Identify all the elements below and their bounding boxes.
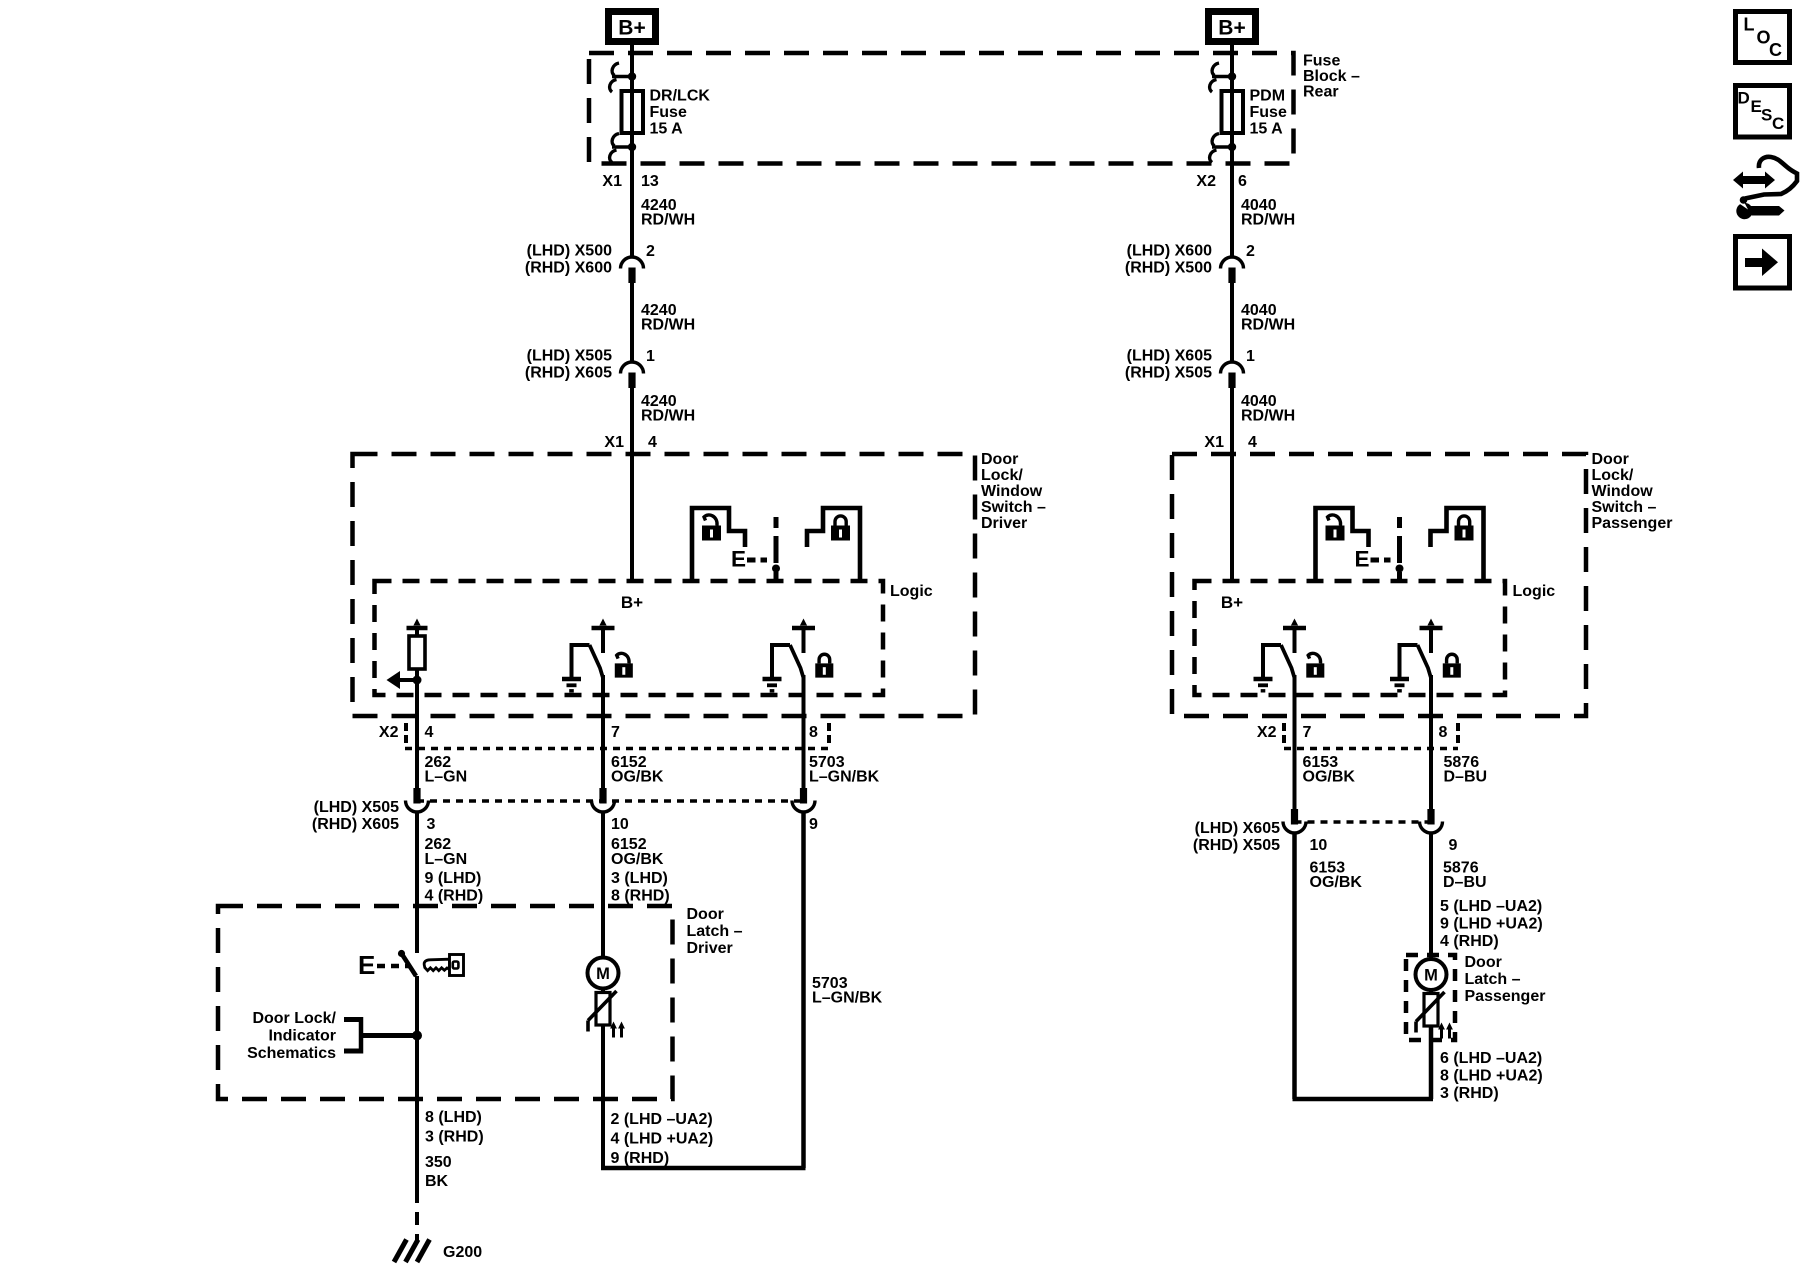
label Door Lock/Window Switch - Passenger — [1592, 451, 1673, 532]
key icon — [424, 955, 463, 976]
label 2(LHD-UA2) 4(LHD+UA2) 9(RHD) — [611, 1111, 714, 1167]
wire pin 7 (driver) — [601, 675, 605, 788]
svg-text:Latch –: Latch – — [687, 923, 743, 940]
svg-text:Driver: Driver — [687, 940, 733, 957]
svg-text:(RHD) X600: (RHD) X600 — [525, 260, 612, 277]
label connector (LHD) X600 (RHD) X500 — [1125, 243, 1212, 277]
dotted connector interface (passenger lower) — [1295, 820, 1432, 824]
wire 5876 to latch motor — [1429, 833, 1433, 959]
connector row X2 labels (passenger) — [1257, 723, 1458, 743]
DESC navigation box — [1736, 86, 1790, 138]
svg-text:4: 4 — [1248, 434, 1257, 451]
svg-text:(LHD) X605: (LHD) X605 — [1127, 348, 1212, 365]
wire 4040 RD/WH fuse to X600 — [1230, 133, 1234, 257]
pin 2 label (passenger) — [1246, 243, 1255, 260]
wire 6153 (passenger) — [1292, 833, 1297, 1099]
wire into passenger switch — [1230, 454, 1234, 581]
svg-text:9 (LHD +UA2): 9 (LHD +UA2) — [1440, 916, 1543, 933]
svg-text:RD/WH: RD/WH — [1241, 408, 1295, 425]
svg-text:L: L — [1744, 15, 1755, 35]
connector X505 pin 10 (driver) — [592, 788, 615, 812]
label connector (LHD) X500 (RHD) X600 — [525, 243, 612, 277]
PTC thermistor (passenger latch) — [1416, 990, 1453, 1039]
svg-text:X2: X2 — [379, 724, 399, 741]
svg-text:M: M — [1424, 967, 1438, 985]
svg-text:9: 9 — [809, 816, 818, 833]
lock/unlock indicator brackets with padlocks (passenger) — [1316, 508, 1484, 583]
label Door Latch - Passenger — [1465, 954, 1546, 1005]
svg-text:Logic: Logic — [1513, 583, 1556, 600]
svg-text:1: 1 — [646, 348, 655, 365]
pin label X1 4 (passenger switch input) — [1204, 434, 1257, 451]
svg-text:Schematics: Schematics — [247, 1045, 336, 1062]
svg-text:4 (RHD): 4 (RHD) — [425, 888, 484, 905]
wire 350 BK dashed to ground — [415, 1190, 419, 1242]
connector X2 dotted interface (driver) — [405, 747, 830, 751]
svg-text:Lock/: Lock/ — [1592, 467, 1634, 484]
passenger switch Logic dashed box — [1195, 581, 1506, 695]
lock switch (passenger, pin 8) — [1390, 619, 1461, 691]
svg-text:Window: Window — [981, 483, 1043, 500]
wire 4040 RD/WH X600 to X605 — [1230, 283, 1234, 362]
checking/repair wrench icon — [1733, 157, 1797, 219]
svg-text:9 (RHD): 9 (RHD) — [611, 1150, 670, 1167]
svg-text:RD/WH: RD/WH — [641, 408, 695, 425]
svg-text:OG/BK: OG/BK — [611, 851, 664, 868]
label Door Latch - Driver — [687, 906, 743, 957]
label 5876 D-BU lower — [1443, 860, 1487, 892]
door lock/indicator schematics reference bracket — [247, 1010, 422, 1062]
driver switch Logic dashed box — [375, 581, 884, 695]
label 6(LHD-UA2) 8(LHD+UA2) 3(RHD) — [1440, 1050, 1543, 1102]
label 5876 D-BU — [1444, 754, 1488, 786]
label 5703 L-GN/BK — [809, 754, 880, 786]
svg-text:X1: X1 — [1204, 434, 1224, 451]
svg-text:3: 3 — [427, 816, 436, 833]
svg-text:Door: Door — [981, 451, 1018, 468]
connector X500 pin 2 — [621, 257, 644, 283]
label connector (LHD) X605 (RHD) X505 — [1125, 348, 1212, 382]
svg-text:L–GN/BK: L–GN/BK — [812, 990, 883, 1007]
wire 4240 RD/WH X505 to switch — [630, 388, 634, 454]
svg-text:X1: X1 — [604, 434, 624, 451]
PTC thermistor (driver latch) — [588, 989, 625, 1038]
wire pin 7 (passenger) — [1293, 675, 1297, 809]
connector X605 pin 1 — [1221, 362, 1244, 388]
svg-text:3 (LHD): 3 (LHD) — [611, 870, 668, 887]
svg-text:15 A: 15 A — [1250, 121, 1284, 138]
connector X505 pin 1 — [621, 362, 644, 388]
svg-text:C: C — [1772, 114, 1784, 133]
svg-text:Switch –: Switch – — [1592, 499, 1657, 516]
svg-text:OG/BK: OG/BK — [1310, 874, 1363, 891]
svg-text:(RHD) X505: (RHD) X505 — [1125, 365, 1212, 382]
svg-text:(RHD) X605: (RHD) X605 — [312, 816, 399, 833]
wire B+ to DR/LCK fuse — [630, 45, 634, 91]
wire B+ to PDM fuse — [1230, 45, 1234, 91]
svg-text:Door: Door — [687, 906, 724, 923]
svg-text:7: 7 — [611, 724, 620, 741]
svg-text:(LHD) X605: (LHD) X605 — [1195, 820, 1280, 837]
wire 4040 RD/WH X605 to switch — [1230, 388, 1234, 454]
illumination output arrow + junction — [387, 671, 422, 689]
label Fuse Block - Rear — [1303, 53, 1360, 101]
label PDM Fuse 15 A — [1250, 88, 1287, 138]
svg-text:Door: Door — [1465, 954, 1502, 971]
fuse clip upper (DR/LCK) — [610, 63, 637, 92]
svg-text:Door: Door — [1592, 451, 1629, 468]
svg-text:BK: BK — [425, 1173, 449, 1190]
svg-text:Block –: Block – — [1303, 68, 1360, 85]
svg-text:2: 2 — [1246, 243, 1255, 260]
key lock cylinder switch (driver latch) — [358, 950, 416, 980]
svg-text:10: 10 — [611, 816, 629, 833]
latch motor M (driver) — [588, 958, 619, 989]
svg-text:Switch –: Switch – — [981, 499, 1046, 516]
svg-text:8 (RHD): 8 (RHD) — [611, 888, 670, 905]
wire 4240 RD/WH X500 to X505 — [630, 283, 634, 362]
svg-text:M: M — [596, 965, 610, 983]
wire pin 4 (driver) — [415, 680, 419, 788]
Door Lock/Window Switch - Passenger dashed outline — [1172, 454, 1586, 716]
node B+ label (driver logic) — [621, 593, 643, 612]
svg-text:8 (LHD +UA2): 8 (LHD +UA2) — [1440, 1068, 1543, 1085]
svg-text:B+: B+ — [621, 593, 643, 612]
svg-text:Rear: Rear — [1303, 84, 1339, 101]
label 262 L-GN 9(LHD) 4(RHD) — [425, 836, 484, 905]
lock/unlock indicator brackets with padlocks (driver) — [692, 508, 860, 583]
svg-text:DR/LCK: DR/LCK — [650, 88, 711, 105]
label 6153 OG/BK — [1303, 754, 1356, 786]
label connector (LHD) X605 (RHD) X505 lower — [1193, 820, 1280, 854]
wire 5703 L-GN/BK (driver) — [801, 812, 806, 1168]
label 4240 RD/WH — [641, 302, 695, 334]
fuse PDM 15 A — [1222, 91, 1244, 133]
wire 4240 RD/WH fuse to X500 — [630, 133, 634, 257]
Door Lock/Window Switch - Driver dashed outline — [353, 454, 976, 716]
svg-text:D–BU: D–BU — [1443, 874, 1487, 891]
svg-text:3 (RHD): 3 (RHD) — [1440, 1085, 1499, 1102]
pin label X1 13 (fuse block output) — [602, 173, 658, 190]
svg-text:(LHD) X505: (LHD) X505 — [527, 348, 612, 365]
svg-text:(RHD) X505: (RHD) X505 — [1193, 837, 1280, 854]
svg-text:9: 9 — [1449, 837, 1458, 854]
svg-text:C: C — [1769, 40, 1782, 60]
wire key switch to ground run — [415, 976, 419, 1190]
svg-text:1: 1 — [1246, 348, 1255, 365]
connector X505 pin 9 (driver) — [792, 788, 815, 812]
svg-text:Passenger: Passenger — [1465, 988, 1546, 1005]
lock switch (driver, pin 8) — [763, 619, 834, 691]
svg-text:4 (LHD +UA2): 4 (LHD +UA2) — [611, 1131, 714, 1148]
dotted connector interface (driver lower) — [417, 799, 804, 803]
label DR/LCK Fuse 15 A — [650, 88, 711, 138]
svg-text:RD/WH: RD/WH — [1241, 317, 1295, 334]
svg-text:Logic: Logic — [890, 583, 933, 600]
svg-text:PDM: PDM — [1250, 88, 1286, 105]
forward arrow navigation box — [1736, 237, 1790, 289]
pin 1 label (passenger) — [1246, 348, 1255, 365]
Fuse Block - Rear dashed outline — [589, 53, 1294, 164]
svg-text:B+: B+ — [618, 17, 645, 40]
svg-text:RD/WH: RD/WH — [641, 317, 695, 334]
svg-text:D–BU: D–BU — [1444, 769, 1488, 786]
label 5703 L-GN/BK (vertical run) — [812, 975, 883, 1007]
svg-text:(RHD) X500: (RHD) X500 — [1125, 260, 1212, 277]
fuse clip lower (DR/LCK) — [610, 134, 637, 163]
pin labels 10 9 (passenger) — [1310, 837, 1458, 854]
svg-text:6 (LHD –UA2): 6 (LHD –UA2) — [1440, 1050, 1542, 1067]
pin 1 label — [646, 348, 655, 365]
label 4040 RD/WH — [1241, 197, 1295, 229]
svg-text:4 (RHD): 4 (RHD) — [1440, 933, 1499, 950]
svg-text:X2: X2 — [1196, 173, 1216, 190]
svg-text:7: 7 — [1303, 724, 1312, 741]
LOC navigation box — [1736, 12, 1790, 63]
svg-text:Indicator: Indicator — [268, 1028, 336, 1045]
svg-text:9 (LHD): 9 (LHD) — [425, 870, 482, 887]
svg-text:6: 6 — [1238, 173, 1247, 190]
pin 2 label — [646, 243, 655, 260]
connector X505 pin 3 (driver) — [406, 788, 429, 812]
svg-text:Passenger: Passenger — [1592, 515, 1673, 532]
wire pin 8 (passenger) — [1429, 675, 1433, 809]
label 8(LHD) 3(RHD) — [425, 1109, 484, 1146]
svg-text:B+: B+ — [1221, 593, 1243, 612]
svg-text:L–GN: L–GN — [425, 851, 468, 868]
label 5(LHD-UA2) 9(LHD+UA2) 4(RHD) — [1440, 898, 1543, 950]
unlock switch (driver, pin 7) — [562, 619, 633, 691]
fuse clip upper (PDM) — [1210, 63, 1237, 92]
svg-text:Fuse: Fuse — [650, 104, 687, 121]
label 4240 RD/WH — [641, 393, 695, 425]
svg-text:Lock/: Lock/ — [981, 467, 1023, 484]
svg-text:L–GN/BK: L–GN/BK — [809, 769, 880, 786]
label 4240 RD/WH — [641, 197, 695, 229]
svg-text:Fuse: Fuse — [1250, 104, 1287, 121]
svg-text:5 (LHD –UA2): 5 (LHD –UA2) — [1440, 898, 1542, 915]
node B+ label (passenger logic) — [1221, 593, 1243, 612]
svg-text:RD/WH: RD/WH — [1241, 212, 1295, 229]
connector row X2 labels (driver) — [379, 723, 829, 743]
connector X605 pin 9 (passenger) — [1420, 809, 1443, 833]
svg-text:10: 10 — [1310, 837, 1328, 854]
svg-text:8: 8 — [809, 724, 818, 741]
ground G200 — [394, 1240, 430, 1263]
svg-text:E: E — [358, 950, 375, 980]
svg-text:S: S — [1761, 106, 1772, 125]
label connector (LHD) X505 (RHD) X605 lower — [312, 799, 399, 833]
svg-text:E: E — [731, 547, 746, 572]
label 262 L-GN — [425, 754, 468, 786]
svg-text:Window: Window — [1592, 483, 1654, 500]
svg-text:(LHD) X500: (LHD) X500 — [527, 243, 612, 260]
svg-text:4: 4 — [648, 434, 657, 451]
label G200 — [443, 1244, 482, 1261]
svg-text:OG/BK: OG/BK — [1303, 769, 1356, 786]
svg-text:G200: G200 — [443, 1244, 482, 1261]
svg-text:Door Lock/: Door Lock/ — [252, 1010, 336, 1027]
label Logic (passenger) — [1513, 583, 1556, 600]
label 4040 RD/WH — [1241, 302, 1295, 334]
pin label X2 6 (fuse block output) — [1196, 173, 1247, 190]
label connector (LHD) X505 (RHD) X605 — [525, 348, 612, 382]
svg-text:E: E — [1355, 547, 1370, 572]
wire motor to 5703 join — [601, 1025, 806, 1168]
svg-text:L–GN: L–GN — [425, 769, 468, 786]
svg-text:2 (LHD –UA2): 2 (LHD –UA2) — [611, 1111, 713, 1128]
label 6152 OG/BK — [611, 754, 664, 786]
label Logic (driver) — [890, 583, 933, 600]
Door Latch - Driver dashed outline — [218, 906, 673, 1099]
wire 262 to key switch — [415, 812, 419, 953]
svg-text:2: 2 — [646, 243, 655, 260]
label 6152 OG/BK 3(LHD) 8(RHD) — [611, 836, 670, 905]
label 350 BK — [425, 1154, 452, 1190]
svg-text:Latch –: Latch – — [1465, 971, 1521, 988]
wire motor to 6153 join — [1293, 1026, 1434, 1099]
svg-text:(LHD) X600: (LHD) X600 — [1127, 243, 1212, 260]
svg-text:(RHD) X605: (RHD) X605 — [525, 365, 612, 382]
svg-text:4: 4 — [425, 724, 434, 741]
illumination resistor (driver switch) — [407, 619, 428, 696]
B+ power feed (passenger circuit) — [1209, 12, 1256, 42]
svg-text:RD/WH: RD/WH — [641, 212, 695, 229]
svg-text:X2: X2 — [1257, 724, 1277, 741]
svg-text:8 (LHD): 8 (LHD) — [425, 1109, 482, 1126]
B+ power feed (driver circuit) — [609, 12, 656, 42]
svg-text:(LHD) X505: (LHD) X505 — [314, 799, 399, 816]
pin label X1 4 (driver switch input) — [604, 434, 657, 451]
svg-text:3 (RHD): 3 (RHD) — [425, 1129, 484, 1146]
svg-text:13: 13 — [641, 173, 659, 190]
svg-text:350: 350 — [425, 1154, 452, 1171]
pin labels 3 10 9 — [427, 816, 819, 833]
svg-text:D: D — [1738, 89, 1750, 108]
latch motor M (passenger) — [1416, 959, 1447, 990]
connector X600 pin 2 — [1221, 257, 1244, 283]
label Door Lock/Window Switch - Driver — [981, 451, 1046, 532]
connector X605 pin 10 (passenger) — [1283, 809, 1306, 833]
label 6153 OG/BK lower — [1310, 860, 1363, 892]
connector X2 dotted interface (passenger) — [1284, 747, 1458, 751]
svg-text:Driver: Driver — [981, 515, 1027, 532]
svg-text:X1: X1 — [602, 173, 622, 190]
unlock switch (passenger, pin 7) — [1254, 619, 1325, 691]
svg-text:B+: B+ — [1218, 17, 1245, 40]
svg-text:15 A: 15 A — [650, 121, 684, 138]
fuse clip lower (PDM) — [1210, 134, 1237, 163]
fuse DR/LCK 15 A — [622, 91, 644, 133]
svg-text:Fuse: Fuse — [1303, 53, 1340, 70]
svg-text:8: 8 — [1439, 724, 1448, 741]
svg-text:OG/BK: OG/BK — [611, 769, 664, 786]
label 4040 RD/WH — [1241, 393, 1295, 425]
wire into driver switch — [630, 454, 634, 581]
wire 6152 to latch motor — [601, 812, 605, 958]
Door Latch - Passenger dashed outline — [1406, 955, 1455, 1040]
wire pin 8 (driver) — [802, 675, 806, 788]
